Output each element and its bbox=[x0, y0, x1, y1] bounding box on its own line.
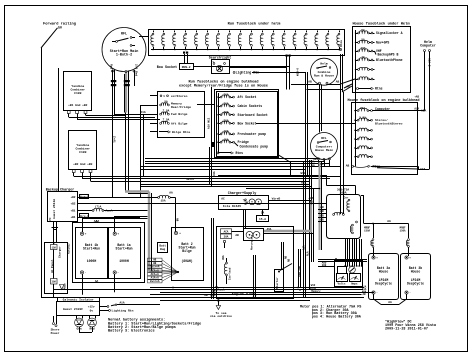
svg-text:15A: 15A bbox=[223, 138, 228, 141]
house main terminals bbox=[318, 158, 320, 160]
wire A1A horizontal bbox=[115, 114, 151, 116]
svg-text:-: - bbox=[376, 291, 378, 295]
svg-text:AA: AA bbox=[387, 220, 391, 223]
battery 3b box bbox=[401, 254, 431, 300]
ac breaker 30A box bbox=[51, 279, 58, 285]
wire drop pair far b bbox=[307, 72, 309, 175]
svg-text:-: - bbox=[243, 203, 245, 206]
svg-text:AB: AB bbox=[346, 165, 350, 168]
galvanic box bbox=[57, 302, 100, 316]
battery 3a terminals bbox=[372, 256, 375, 259]
rotary switch Computer+ House Main bbox=[311, 133, 338, 160]
fuses F1-F18 in run fuseblock bbox=[153, 31, 155, 33]
svg-text:2/0 Red: 2/0 Red bbox=[135, 64, 139, 77]
svg-text:A1A(A1): A1A(A1) bbox=[67, 243, 71, 254]
battery bank enclosure bbox=[73, 223, 145, 283]
yandina 1 wires bbox=[68, 114, 70, 118]
engine fuse coil bbox=[226, 258, 228, 262]
house run fuseblock feed bbox=[218, 93, 220, 153]
svg-text:W18-6: W18-6 bbox=[297, 68, 300, 76]
svg-text:Freshwater pump: Freshwater pump bbox=[238, 132, 267, 136]
cable engine ground run bbox=[264, 230, 312, 232]
svg-text:AB: AB bbox=[336, 81, 340, 84]
svg-text:0v: 0v bbox=[90, 310, 94, 313]
svg-text:Aux Red: Aux Red bbox=[298, 266, 302, 277]
wire combine to house main a bbox=[319, 84, 321, 132]
svg-text:Condensate pump: Condensate pump bbox=[240, 144, 269, 148]
svg-text:AB: AB bbox=[309, 201, 313, 204]
cable 2/0 turn right bbox=[125, 190, 149, 192]
run fuseblock internal bus bbox=[151, 49, 341, 51]
run fuseblock engine bulkhead box bbox=[158, 92, 205, 138]
run fuseblock on house inner box bbox=[217, 92, 278, 157]
svg-text:+: + bbox=[85, 232, 87, 236]
house engine rtns bbox=[352, 165, 354, 167]
svg-text:-: - bbox=[409, 291, 411, 295]
svg-text:AB: AB bbox=[235, 234, 239, 237]
svg-text:Bug: Bug bbox=[160, 248, 165, 251]
wire batt1a feed bbox=[114, 216, 116, 232]
wires through ac panel bbox=[53, 243, 55, 245]
backup charger wire B2a bbox=[77, 197, 148, 199]
svg-text:AB: AB bbox=[320, 210, 324, 213]
comb wires to meter bbox=[345, 239, 347, 266]
wire bilge drop b bbox=[143, 114, 145, 176]
svg-text:AB: AB bbox=[153, 262, 157, 265]
wire computer fuse to helm wire bbox=[418, 110, 425, 112]
cable to batt2 terminal bbox=[149, 270, 176, 272]
fuse block: run fuseblock under helm box bbox=[149, 30, 345, 56]
svg-text:RUN-2: RUN-2 bbox=[182, 66, 191, 69]
svg-text:b0: b0 bbox=[58, 26, 62, 30]
batt bug box bbox=[158, 243, 168, 253]
breaker terminal bbox=[223, 240, 225, 242]
junction sea ground bbox=[217, 299, 219, 301]
svg-text:Run fuseblock under helm: Run fuseblock under helm bbox=[228, 22, 281, 27]
meter panel outer box bbox=[335, 261, 363, 287]
svg-text:RCA+A: RCA+A bbox=[151, 269, 159, 272]
panel lower fuse bbox=[352, 224, 354, 226]
svg-text:House: House bbox=[379, 270, 389, 274]
rotary switch Start+Run Main 1-Both-2 bbox=[102, 28, 146, 72]
cable 2/0 red from switch common down (thick) bbox=[125, 71, 127, 113]
searchlight terminals bbox=[213, 63, 215, 65]
svg-text:ex/Stereo: ex/Stereo bbox=[171, 94, 188, 98]
junction dots bottom buses bbox=[211, 294, 213, 296]
battery 1b box bbox=[76, 228, 108, 279]
charger output wires bbox=[269, 200, 312, 202]
svg-text:2wireA: 2wireA bbox=[150, 279, 160, 283]
svg-text:30A: 30A bbox=[52, 281, 57, 284]
wire corridor a bbox=[340, 54, 342, 214]
svg-text:ACA-2: ACA-2 bbox=[427, 58, 430, 67]
battery 2 terminals bbox=[174, 231, 177, 234]
wires mid horizontals 1 bbox=[145, 158, 319, 160]
svg-text:AA: AA bbox=[96, 220, 100, 223]
wire combine right diagonal bbox=[328, 84, 340, 86]
svg-text:AB: AB bbox=[320, 215, 324, 218]
wire forward-railing leader diagonal bbox=[41, 28, 58, 48]
svg-text:-: - bbox=[85, 270, 87, 274]
wire label fan to batt2 ground bbox=[148, 258, 163, 261]
svg-text:AB: AB bbox=[308, 81, 312, 84]
svg-text:Helm: Helm bbox=[320, 62, 327, 66]
galvanic left wires bbox=[53, 316, 55, 322]
wire drop to RUN-2 socket a bbox=[184, 54, 186, 64]
svg-text:+: + bbox=[117, 232, 119, 236]
svg-text:1: 1 bbox=[163, 95, 165, 98]
svg-text:+B1: +B1 bbox=[70, 216, 75, 219]
fuses run fuseblock on house bbox=[217, 96, 218, 97]
svg-text:A1A: A1A bbox=[302, 245, 305, 250]
svg-text:Z+A1: Z+A1 bbox=[113, 136, 116, 143]
wire searchlight to drop bbox=[229, 67, 287, 69]
wire corridor d2 bbox=[313, 189, 315, 234]
yandina combiner 1 box bbox=[64, 72, 92, 111]
battery 3b terminals bbox=[405, 256, 408, 259]
wire bow socket run bbox=[193, 66, 290, 68]
wire memory row to right bbox=[197, 104, 215, 106]
svg-text:C100: C100 bbox=[74, 91, 81, 95]
svg-text:Wire-B: Wire-B bbox=[79, 195, 89, 199]
bus line 3 bbox=[150, 294, 362, 296]
svg-text:Run fuseblocks on engine bulkh: Run fuseblocks on engine bulkhead bbox=[189, 79, 259, 84]
wire pair from switch pole 1 down bbox=[112, 70, 114, 116]
cable engine ground vertical bbox=[310, 200, 312, 233]
svg-text:+B2: +B2 bbox=[70, 196, 75, 199]
svg-text:Red: Red bbox=[110, 64, 114, 70]
wire add300 bbox=[318, 266, 335, 268]
wire helm computer A bbox=[424, 52, 426, 111]
svg-text:20A: 20A bbox=[223, 102, 228, 105]
wires engine outside-left bbox=[211, 218, 213, 299]
fuses house fuseblock engine bulkhead bbox=[354, 110, 355, 111]
yandina 2 terminal posts bbox=[72, 170, 75, 173]
cable lug box bbox=[244, 229, 264, 241]
svg-text:W12: W12 bbox=[300, 172, 305, 175]
engine wtb terminal bbox=[215, 286, 217, 288]
house fuseblock engine box bbox=[352, 103, 418, 175]
svg-text:+12v: +12v bbox=[88, 306, 95, 309]
svg-text:Computer: Computer bbox=[420, 43, 436, 47]
wire corridor b bbox=[342, 54, 344, 92]
svg-text:BluetoothStereo: BluetoothStereo bbox=[375, 122, 403, 126]
svg-text:Bilge: Bilge bbox=[182, 249, 192, 253]
svg-text:RFL: RFL bbox=[121, 32, 127, 36]
svg-text:C100: C100 bbox=[79, 150, 86, 154]
svg-text:Cn+: Cn+ bbox=[344, 196, 349, 199]
galvanic diode a bbox=[76, 316, 78, 319]
charger supply box bbox=[219, 196, 269, 210]
wire out bottom right corner bbox=[279, 155, 291, 162]
svg-text:15A: 15A bbox=[52, 246, 57, 249]
junction dots corridor bbox=[305, 289, 307, 291]
svg-text:+: + bbox=[376, 256, 378, 260]
starter box bbox=[275, 270, 284, 292]
svg-text:ALA: ALA bbox=[307, 251, 310, 256]
svg-text:except Memory/rear/Fridge fuse: except Memory/rear/Fridge fuse is on Hou… bbox=[179, 84, 268, 89]
engine block box bbox=[217, 227, 294, 299]
wire left vertical x58 bbox=[58, 68, 60, 192]
svg-text:Iso-lead: Iso-lead bbox=[228, 267, 232, 280]
wire helm computer B bbox=[429, 52, 431, 170]
svg-text:(80AH): (80AH) bbox=[181, 259, 192, 263]
svg-text:10A: 10A bbox=[360, 47, 365, 50]
svg-text:Lighting Rtn: Lighting Rtn bbox=[112, 308, 134, 312]
svg-text:Volts: Volts bbox=[337, 282, 345, 286]
galvanic 0v wire bbox=[99, 310, 109, 312]
combine terminals bbox=[319, 82, 321, 84]
switch bottom terminals bbox=[112, 70, 114, 72]
svg-text:A1A W12: A1A W12 bbox=[208, 117, 211, 129]
fuse 15A inline bbox=[140, 197, 158, 199]
charger plug symbols bbox=[249, 199, 255, 205]
ac breaker 15A box bbox=[51, 245, 58, 250]
svg-text:pos 4: House Battery 30A: pos 4: House Battery 30A bbox=[312, 316, 362, 320]
wire starter diagonal bbox=[280, 264, 292, 271]
backup charger down wires bbox=[53, 222, 55, 243]
svg-text:Power: Power bbox=[51, 331, 60, 335]
svg-text:30A: 30A bbox=[224, 236, 229, 239]
svg-text:Guest 2433F: Guest 2433F bbox=[63, 307, 83, 311]
wires charger to lug box bbox=[243, 210, 245, 229]
junction blob left edge bbox=[212, 142, 216, 147]
fuses house fuseblock under helm bbox=[355, 32, 356, 33]
svg-text:150A: 150A bbox=[400, 229, 406, 232]
wire rtns to helm wire bbox=[418, 169, 430, 171]
panel left stub wires bbox=[318, 209, 327, 211]
svg-text:AB: AB bbox=[320, 206, 324, 209]
svg-text:Amps: Amps bbox=[351, 283, 358, 286]
svg-text:+B1 Gnd +B2: +B1 Gnd +B2 bbox=[68, 103, 88, 107]
wire corridor c bbox=[309, 160, 311, 290]
svg-text:10A: 10A bbox=[223, 130, 228, 133]
svg-text:AB: AB bbox=[362, 293, 366, 296]
wire corridor d bbox=[311, 160, 313, 262]
svg-text:20A: 20A bbox=[223, 93, 228, 96]
house fuseblock engine feed bbox=[355, 106, 357, 166]
wire horizontal y175 bbox=[218, 175, 327, 177]
battery 2 box bbox=[172, 228, 204, 281]
wire batt1b ground drop bbox=[82, 274, 84, 295]
terminal Rtns run fuseblock bbox=[339, 48, 341, 50]
wire switch to run fuseblock bbox=[139, 36, 148, 38]
house fuseblock rtns terminal bbox=[357, 88, 359, 90]
svg-text:PC: PC bbox=[49, 217, 52, 220]
svg-text:1A: 1A bbox=[361, 56, 365, 59]
breaker boxes ACA 30A bbox=[221, 229, 232, 234]
svg-text:20A: 20A bbox=[223, 111, 228, 114]
svg-text:House Main: House Main bbox=[315, 148, 333, 152]
svg-text:150A: 150A bbox=[364, 229, 370, 232]
svg-text:Charger: Charger bbox=[58, 246, 62, 258]
wire step to battery panel bbox=[326, 175, 328, 186]
wires engine area verticals bbox=[253, 255, 255, 297]
svg-text:Mercruiser: Mercruiser bbox=[250, 234, 254, 250]
yandina 1 terminal posts bbox=[67, 111, 70, 114]
wire corridor c2 bbox=[303, 162, 305, 297]
panel vertical fuse bbox=[348, 199, 350, 201]
searchlight box bbox=[212, 60, 230, 74]
meter selector mini box bbox=[338, 267, 347, 274]
svg-text:Rtns: Rtns bbox=[375, 87, 383, 91]
wire batt3 ground link bbox=[373, 294, 375, 299]
wire fuse a to batt3a bbox=[373, 248, 375, 257]
wires mid horizontals 5 bbox=[140, 169, 306, 171]
svg-text:House fuseblock under Helm: House fuseblock under Helm bbox=[352, 22, 410, 27]
wire drop to RUN-2 socket b bbox=[187, 54, 189, 64]
wire bilge drop a bbox=[140, 105, 142, 198]
wire drop pair right a bbox=[286, 57, 288, 90]
svg-text:DeepCycle: DeepCycle bbox=[407, 282, 424, 286]
svg-text:31A: 31A bbox=[213, 171, 216, 176]
wire left drop continues bbox=[112, 115, 114, 198]
sea ground arrow bbox=[218, 302, 220, 306]
battery 1a box bbox=[109, 228, 141, 279]
bow socket plug box bbox=[180, 64, 194, 70]
engine inner verticals bbox=[281, 242, 283, 270]
bus line 2 bbox=[54, 289, 363, 291]
svg-text:Iota DLS45: Iota DLS45 bbox=[223, 204, 241, 208]
panel horizontal fuse bbox=[333, 214, 335, 216]
svg-text:5A: 5A bbox=[361, 39, 365, 42]
bus line 4 bbox=[41, 297, 364, 299]
wire rtns to right edge bbox=[371, 166, 418, 168]
battery symbol marks bbox=[52, 227, 59, 229]
svg-text:AA: AA bbox=[388, 301, 392, 304]
galvanic diode b bbox=[89, 316, 91, 319]
svg-text:15A: 15A bbox=[160, 200, 165, 203]
rotary switch Helm Combine Run & House bbox=[311, 58, 338, 85]
svg-text:300A: 300A bbox=[339, 192, 346, 195]
wire forward-railing bottom run to bus bbox=[41, 297, 58, 299]
wire lighting rtn w/ terminal bbox=[233, 72, 235, 74]
house run fuseblock rtns bbox=[217, 152, 219, 154]
svg-text:2009-11-28 2011-01-07: 2009-11-28 2011-01-07 bbox=[385, 328, 428, 332]
svg-text:RFL: RFL bbox=[321, 136, 327, 140]
svg-text:1-Both-2: 1-Both-2 bbox=[116, 53, 132, 58]
battery 3a box bbox=[369, 254, 399, 300]
svg-text:2wireA: 2wireA bbox=[150, 265, 160, 269]
svg-text:DeepCycle: DeepCycle bbox=[375, 282, 392, 286]
svg-text:+: + bbox=[243, 199, 245, 202]
svg-text:BluetoothPhone: BluetoothPhone bbox=[376, 58, 403, 62]
wire fuse b to batt3b bbox=[408, 248, 410, 257]
backup charger box bbox=[48, 192, 78, 222]
battery 1b terminals bbox=[80, 232, 83, 235]
svg-text:AC: AC bbox=[221, 198, 225, 201]
yandina 2 wires bbox=[73, 173, 75, 177]
bus line 1 bbox=[150, 287, 364, 289]
svg-text:A1A+A: A1A+A bbox=[151, 277, 159, 280]
wire drop pair far a bbox=[305, 72, 307, 297]
wire house engine feed from top bbox=[355, 79, 357, 106]
wire combine left bbox=[291, 84, 319, 86]
svg-text:BackupGPS B: BackupGPS B bbox=[378, 53, 399, 57]
svg-text:Memory: Memory bbox=[311, 289, 321, 293]
svg-text:ACA+A: ACA+A bbox=[151, 273, 159, 276]
svg-text:AB: AB bbox=[176, 218, 179, 222]
wire corridor a2 bbox=[343, 92, 345, 214]
svg-text:+: + bbox=[179, 231, 181, 235]
svg-text:ACA: ACA bbox=[309, 161, 314, 164]
searchlight lamp symbol bbox=[216, 65, 222, 71]
connector blocks searchlight feed bbox=[183, 52, 185, 54]
starter terminal bbox=[278, 271, 280, 273]
battery fuse panel rounded box bbox=[327, 195, 361, 239]
svg-text:Start+Run: Start+Run bbox=[115, 247, 132, 251]
wire corner at 89 bbox=[307, 89, 343, 91]
wire house fuseblock feeds from combine bbox=[344, 84, 352, 88]
svg-text:AB: AB bbox=[287, 258, 290, 262]
svg-text:(7)A: (7)A bbox=[95, 205, 102, 209]
house fuseblock feed wire bbox=[355, 30, 357, 89]
svg-text:5wire: 5wire bbox=[186, 177, 194, 181]
backup charger wire B1b bbox=[77, 217, 140, 219]
wire batt1a ground drop bbox=[114, 274, 116, 292]
svg-text:Main: Main bbox=[64, 283, 67, 289]
wires mid horizontals 4 bbox=[140, 166, 340, 168]
svg-text:15-A: 15-A bbox=[259, 218, 266, 221]
bus line 2b bbox=[160, 292, 374, 294]
wire forward-railing vertical run bbox=[41, 48, 43, 297]
svg-text:Bow Socket: Bow Socket bbox=[157, 65, 177, 70]
svg-text:via outdrive: via outdrive bbox=[210, 314, 232, 318]
svg-text:AB: AB bbox=[204, 294, 208, 297]
svg-text:House: House bbox=[411, 270, 421, 274]
svg-text:AB: AB bbox=[285, 255, 288, 259]
svg-text:Fwd Bilge: Fwd Bilge bbox=[171, 112, 188, 116]
galvanic diode wires down bbox=[79, 327, 81, 332]
voltmeter dial bbox=[337, 274, 348, 282]
wire blob drops bbox=[209, 147, 211, 185]
wire batt1b feed bbox=[82, 219, 84, 233]
svg-text:1000H: 1000H bbox=[87, 259, 97, 263]
svg-text:AA: AA bbox=[169, 192, 173, 195]
fuses run fuseblock engine bulkhead bbox=[160, 95, 162, 97]
svg-text:SignalLocker A: SignalLocker A bbox=[376, 31, 403, 35]
galvanic title box bbox=[58, 298, 100, 302]
svg-text:30A: 30A bbox=[222, 255, 225, 260]
meter selector rotary bbox=[349, 267, 356, 274]
svg-text:AB: AB bbox=[153, 259, 157, 262]
svg-text:20A: 20A bbox=[360, 107, 365, 110]
wire long vertical mid bbox=[211, 87, 213, 162]
svg-text:Rtns: Rtns bbox=[340, 40, 343, 47]
cable 2/0 down to batteries bbox=[148, 192, 150, 272]
wire bow socket row extends right bbox=[256, 123, 355, 125]
wire house batt top bbox=[361, 195, 364, 197]
battery 1a terminals bbox=[113, 232, 116, 235]
lug circles bbox=[246, 231, 253, 238]
cable corridor gray bbox=[319, 162, 321, 250]
run fuseblock on house outer box bbox=[215, 90, 279, 158]
svg-text:Start+Run: Start+Run bbox=[83, 247, 100, 251]
wires mid horizontals 2 bbox=[145, 161, 324, 163]
wire from switch pole 2 down bbox=[134, 70, 136, 86]
ammeter dial bbox=[350, 274, 361, 282]
svg-text:Rear/Fridge: Rear/Fridge bbox=[171, 105, 191, 109]
cable clamp marks bbox=[111, 80, 117, 82]
svg-text:Starboard Socket: Starboard Socket bbox=[238, 113, 268, 117]
house batt fuse a bbox=[373, 224, 375, 239]
connector blocks helm drop bbox=[286, 55, 288, 57]
svg-text:Bow Socket: Bow Socket bbox=[238, 121, 257, 125]
backup charger fuse AuxA bbox=[77, 210, 92, 212]
ac main triangle bbox=[60, 285, 65, 290]
svg-text:+: + bbox=[409, 256, 411, 260]
svg-text:WireD: WireD bbox=[272, 197, 281, 201]
